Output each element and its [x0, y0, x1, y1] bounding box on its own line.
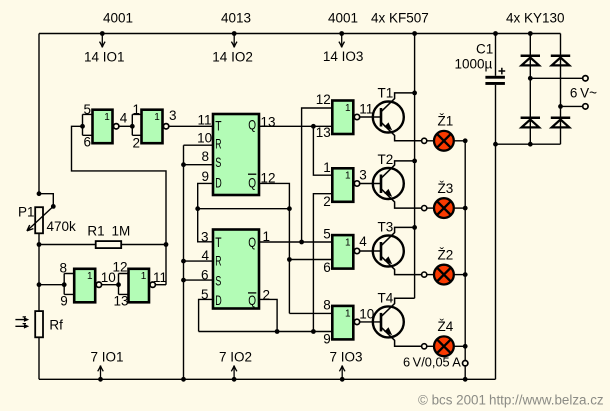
svg-text:Rf: Rf: [49, 317, 63, 332]
contact terminal left of lamp Ž1: [422, 138, 427, 143]
FF2 input letters T R S D: [215, 234, 222, 308]
svg-text:12: 12: [316, 92, 331, 107]
svg-text:Q: Q: [248, 175, 256, 191]
svg-text:T: T: [215, 234, 222, 250]
svg-text:4001: 4001: [328, 11, 358, 26]
lamp Ž1: [434, 131, 454, 151]
svg-text:6: 6: [323, 260, 331, 275]
wire: FF1 D lead and down-link to FF2 clock: [198, 183, 213, 241]
svg-text:Ž2: Ž2: [438, 247, 454, 262]
wire: collector +V bus: [414, 34, 416, 299]
gate IO3c (NOR, pins 5,6 -> 4): [332, 235, 353, 269]
svg-text:Ž4: Ž4: [438, 319, 454, 334]
wire: Rf bottom lead to ground rail: [38, 337, 40, 379]
svg-text:D: D: [215, 175, 222, 191]
svg-text:5: 5: [83, 102, 91, 117]
node: bridge left column at top rail: [528, 31, 533, 36]
gate IO3b (NOR, pins 1,2 -> 3): [332, 168, 353, 202]
gate IO1a (NOR as inverter, pins 5,6 -> 4): [93, 110, 113, 144]
wire: Q1bar bus taps: [289, 259, 332, 261]
C1 plus sign: [499, 68, 506, 75]
svg-text:8: 8: [59, 260, 67, 275]
node: IO2 supply tap on top rail: [232, 31, 237, 36]
wire: gate IO1d input tie bar (pins 12,13): [119, 274, 129, 295]
svg-text:D: D: [215, 292, 222, 308]
svg-text:13: 13: [113, 293, 128, 308]
terminal: AC input 2: [583, 104, 588, 109]
diode D2 (KY130, right top): [551, 54, 570, 57]
wire: Q1bar bus to gate IO3d pin 8: [289, 312, 332, 314]
node: AC input 2 junction: [558, 104, 563, 109]
svg-text:http://www.belza.cz: http://www.belza.cz: [489, 393, 604, 408]
svg-text:S: S: [215, 154, 221, 170]
wire: gate IO3b output to transistor base: [360, 183, 381, 185]
potentiometer P1 body: [35, 207, 43, 233]
terminal: lamp supply tap (6V/0,05A): [463, 361, 468, 366]
wire: AC input 2 lead: [561, 105, 583, 107]
node: lamp Ž1 on return bus: [463, 138, 468, 143]
gate IO3d (NOR, pins 8,9 -> 10): [332, 306, 353, 340]
svg-text:Ž1: Ž1: [438, 114, 454, 129]
svg-text:14 IO1: 14 IO1: [84, 50, 125, 65]
potentiometer P1 wiper arrow: [27, 206, 53, 231]
svg-text:1: 1: [345, 238, 351, 249]
wire: lamp Ž2 to return bus: [454, 274, 465, 276]
svg-text:4001: 4001: [103, 11, 133, 26]
wire: Q1 bus to gate IO3b pin 1: [313, 126, 332, 175]
svg-text:14 IO3: 14 IO3: [323, 49, 364, 64]
ground arrow 7 IO2: [233, 368, 235, 380]
node: R/S bus at ground rail: [181, 377, 186, 382]
lamp Ž4: [434, 336, 454, 356]
wire: FF2 D lead and drop to tie rail: [199, 299, 213, 331]
node: FF2 Qbar on tie rail: [275, 329, 280, 334]
node: R/S bus at FF1 S: [181, 162, 186, 167]
transistor T1: [373, 93, 422, 141]
svg-text:9: 9: [60, 293, 68, 308]
wire: FF2 Qbar lead and drop: [259, 299, 277, 331]
wire: bridge right column (top rail corner): [560, 34, 562, 145]
svg-text:Ž3: Ž3: [438, 181, 454, 196]
svg-text:1M: 1M: [112, 224, 131, 239]
lamp Ž3: [434, 198, 454, 218]
node: R/S bus at FF2 S: [181, 278, 186, 283]
node: FF1 D-Qbar tie right junction: [287, 206, 292, 211]
photoresistor Rf light arrows: [15, 317, 29, 329]
node: IO3 supply tap on top rail: [339, 31, 344, 36]
svg-text:5: 5: [323, 227, 331, 242]
FF1 input letters T R S D: [215, 118, 222, 191]
wire: FF1 R to R/S bus: [184, 144, 214, 146]
svg-text:1: 1: [345, 308, 351, 319]
svg-text:1: 1: [104, 112, 110, 123]
svg-text:14 IO2: 14 IO2: [212, 50, 253, 65]
svg-text:T4: T4: [378, 290, 394, 305]
wire: gate IO3a output to transistor base: [360, 116, 381, 118]
gate IO1d output bubble (pin 11): [150, 282, 155, 287]
transistor T2: [373, 161, 422, 208]
wire: gate IO1a output to gate IO1b input: [119, 125, 132, 127]
power arrow 14 IO3: [341, 34, 343, 46]
node: P1 top / wiper tie: [37, 191, 42, 196]
node: IO2 ground tap on bottom rail: [232, 377, 237, 382]
svg-text:3: 3: [201, 229, 209, 244]
svg-text:2: 2: [263, 287, 271, 302]
node: IO1 supply tap on top rail: [100, 31, 105, 36]
wire: lamp Ž1 to return bus: [454, 140, 465, 142]
svg-text:12: 12: [112, 259, 127, 274]
node: gate IO1d input bar junction: [116, 282, 121, 287]
wire: gate IO1c output to gate IO1d input: [102, 284, 119, 286]
node: Q2bar bus on tie rail: [311, 329, 316, 334]
svg-text:9: 9: [201, 169, 209, 184]
wire: R1 right lead to feedback node: [121, 244, 166, 246]
svg-text:1: 1: [323, 160, 331, 175]
wire: Q2bar bus up to gate IO3b pin 2: [313, 194, 332, 332]
gate IO3a (NOR, pins 12,13 -> 11): [332, 101, 353, 135]
ground arrow 7 IO3: [341, 368, 343, 380]
node: IO1 ground tap on bottom rail: [98, 377, 103, 382]
wire: contact to lamp Ž3: [427, 207, 434, 209]
gate IO3c output bubble (pin 4): [354, 248, 359, 253]
gate IO1b (NOR as inverter, pins 1,2 -> 3): [142, 110, 163, 144]
svg-text:R: R: [215, 253, 221, 269]
node: AC input 1 junction: [528, 76, 533, 81]
svg-text:1: 1: [132, 102, 140, 117]
gate IO1d (NOR as inverter, pins 12,13 -> 11): [129, 269, 150, 303]
wire: contact to lamp Ž1: [427, 140, 434, 142]
wire: FF1 D-Qbar tie rail: [198, 208, 290, 210]
wire: FF1 S lead: [184, 164, 214, 166]
node: P1 wiper joint: [51, 204, 56, 209]
svg-text:470k: 470k: [47, 219, 77, 234]
node: R/S bus at FF2 R: [181, 259, 186, 264]
FF2 output letters Q, Qbar: [248, 234, 256, 308]
svg-text:1000µ: 1000µ: [455, 56, 493, 71]
node: lamp bus at ground rail: [463, 377, 468, 382]
wire: Q2 bus up to gate IO3a pin 12: [302, 108, 333, 242]
wire: R1 left lead: [39, 244, 96, 246]
svg-text:1: 1: [345, 171, 351, 182]
node: lamp Ž4 on return bus: [463, 344, 468, 349]
gate IO1a output bubble (pin 4): [114, 124, 119, 129]
svg-text:11: 11: [359, 101, 373, 116]
diode D3 (KY130, left bottom): [521, 116, 540, 119]
node: FF1 D / Qbar tie left junction: [195, 206, 200, 211]
wire: R/S ground bus: [183, 145, 185, 379]
terminal: AC input 1: [583, 76, 588, 81]
wire: FF2 S lead: [184, 279, 214, 281]
svg-text:R1: R1: [87, 224, 104, 239]
node: Q1bar bus at gate IO3c pin 6: [287, 257, 292, 262]
svg-text:10: 10: [197, 131, 212, 146]
svg-text:P1: P1: [18, 205, 35, 220]
wire: Rf top lead: [38, 245, 40, 312]
svg-text:C1: C1: [476, 41, 493, 56]
svg-text:4: 4: [120, 110, 128, 125]
wire: contact to lamp Ž4: [427, 345, 434, 347]
ground arrow 7 IO1: [100, 368, 102, 380]
node: feedback/R1 junction: [164, 242, 169, 247]
gate IO3b output bubble (pin 3): [354, 181, 359, 186]
lamp Ž2: [434, 265, 454, 285]
wire: FF1 Qbar lead and drop: [259, 183, 289, 313]
svg-text:2: 2: [132, 135, 140, 150]
flip-flop U2b (4013) body: [213, 230, 259, 309]
node: gate IO1b input bar junction: [130, 124, 135, 129]
wire: left supply branch (top rail to P1): [38, 34, 40, 195]
node: Q2 bus tap: [299, 240, 304, 245]
svg-text:T1: T1: [378, 86, 394, 101]
svg-text:8: 8: [323, 298, 331, 313]
photoresistor Rf body: [35, 311, 43, 337]
svg-text:3: 3: [359, 168, 367, 183]
svg-text:6: 6: [83, 135, 91, 150]
wire: gate IO3c output to transistor base: [360, 250, 381, 252]
wire: gate IO1c input tie bar (pins 8,9): [64, 274, 74, 295]
svg-text:4x KY130: 4x KY130: [506, 11, 565, 26]
wire: bridge left column: [529, 34, 531, 145]
node: Q1 bus tap: [311, 124, 316, 129]
node: lamp Ž3 on return bus: [463, 206, 468, 211]
node: IO3 ground tap on bottom rail: [340, 377, 345, 382]
svg-text:4013: 4013: [221, 11, 251, 26]
gate IO1c (NOR as inverter, pins 8,9 -> 10): [74, 269, 95, 303]
wire: AC input 1 lead: [530, 77, 583, 79]
wire: +V top supply rail: [39, 33, 561, 35]
wire: P1 wiper tie: [39, 194, 53, 207]
svg-text:S: S: [215, 272, 221, 288]
svg-text:13: 13: [261, 114, 276, 129]
diode D1 (KY130, left top): [521, 54, 540, 57]
gate IO3a output bubble (pin 11): [354, 114, 359, 119]
wire: gate IO1b input tie bar (pins 1,2): [132, 114, 141, 135]
contact terminal left of lamp Ž2: [422, 272, 427, 277]
FF2 Qbar overline: [248, 292, 256, 294]
svg-text:© bcs 2001: © bcs 2001: [418, 393, 486, 408]
wire: FF2 D-Qbar tie rail to gate IO3d pin 9: [199, 331, 333, 333]
power arrow 14 IO1: [101, 34, 103, 46]
FF1 Qbar overline: [248, 173, 256, 175]
wire: lamp Ž4 to return bus: [454, 345, 465, 347]
diode D4 (KY130, right bottom): [551, 116, 570, 119]
svg-text:1: 1: [141, 271, 147, 282]
resistor R1 body: [96, 241, 122, 248]
wire: P1 bottom lead: [38, 233, 40, 244]
wire: C1 bottom lead: [495, 85, 497, 144]
wire: clock line gate IO1b out to FF1 T input: [169, 125, 213, 127]
flip-flop U2a (4013) body: [213, 114, 259, 195]
wire: right ground drop (bridge to bottom rail): [495, 144, 497, 379]
wire: FF1 Q to gate IO3a pin 13: [259, 125, 332, 127]
svg-text:9: 9: [323, 331, 331, 346]
wire: Rf node to gate IO1c input: [39, 284, 64, 286]
power arrow 14 IO2: [233, 34, 235, 46]
contact terminal left of lamp Ž3: [422, 206, 427, 211]
svg-text:8: 8: [201, 149, 209, 164]
svg-text:2: 2: [323, 194, 331, 209]
gate IO1c output bubble (pin 10): [96, 282, 101, 287]
node: C1 at top rail: [493, 31, 498, 36]
wire: lamp return bus: [464, 141, 466, 379]
svg-text:1: 1: [345, 103, 351, 114]
wire: contact to lamp Ž2: [427, 274, 434, 276]
svg-text:T3: T3: [378, 220, 394, 235]
node: lamp Ž2 on return bus: [463, 272, 468, 277]
svg-text:T: T: [215, 118, 222, 134]
wire: gate IO1a input tie bar (pins 5,6): [83, 114, 93, 135]
capacitor C1 plates: [485, 76, 505, 79]
wire: gate IO1d output up to feedback node: [155, 284, 166, 286]
svg-text:6 V~: 6 V~: [570, 85, 597, 100]
svg-text:11: 11: [197, 113, 211, 128]
wire: FF2 R lead: [184, 260, 214, 262]
svg-text:11: 11: [153, 270, 167, 285]
node: gate IO1c input bar junction: [62, 282, 67, 287]
node: Rf top / gate IO1c input tap: [37, 282, 42, 287]
wire: gate IO3d output to transistor base: [360, 321, 381, 323]
wire: FF2 Q to gate IO3c pin 5: [259, 241, 332, 243]
node: P1/R1/Rf junction: [37, 242, 42, 247]
svg-text:1: 1: [154, 112, 160, 123]
wire: bridge bottom rail: [496, 143, 561, 145]
wire: oscillator feedback node (R1/output11 to gate1 input): [72, 126, 167, 284]
transistor T3: [373, 227, 422, 274]
node: C1 at bridge bottom rail: [493, 142, 498, 147]
wire: lamp Ž3 to return bus: [454, 207, 465, 209]
node: collector bus at T1: [412, 91, 417, 96]
gate IO3d output bubble (pin 10): [354, 319, 359, 324]
node: collector bus at T2: [412, 159, 417, 164]
svg-text:7 IO2: 7 IO2: [219, 350, 252, 365]
svg-text:T2: T2: [378, 152, 394, 167]
svg-text:Q: Q: [248, 116, 256, 132]
svg-text:4x KF507: 4x KF507: [371, 11, 429, 26]
node: gate IO1a input bar junction: [80, 124, 85, 129]
gate IO1b output bubble (pin 3): [163, 124, 168, 129]
wire: ground bottom rail: [39, 378, 496, 380]
contact terminal left of lamp Ž4: [422, 344, 427, 349]
wire: C1 top lead: [495, 34, 497, 76]
svg-text:7 IO3: 7 IO3: [330, 350, 363, 365]
node: bridge left column at bottom rail: [528, 142, 533, 147]
svg-text:3: 3: [169, 108, 177, 123]
svg-text:R: R: [215, 135, 221, 151]
transistor T4: [373, 298, 422, 346]
svg-text:4: 4: [359, 234, 367, 249]
svg-text:1: 1: [87, 271, 93, 282]
node: collector bus at T3: [412, 225, 417, 230]
FF1 output letters Q, Qbar: [248, 116, 256, 190]
node: collector bus at top rail: [412, 31, 417, 36]
svg-text:6 V/0,05 A: 6 V/0,05 A: [403, 355, 461, 370]
svg-text:Q: Q: [248, 292, 256, 308]
svg-text:7 IO1: 7 IO1: [91, 350, 124, 365]
svg-text:Q: Q: [248, 234, 256, 250]
svg-text:13: 13: [316, 125, 331, 140]
